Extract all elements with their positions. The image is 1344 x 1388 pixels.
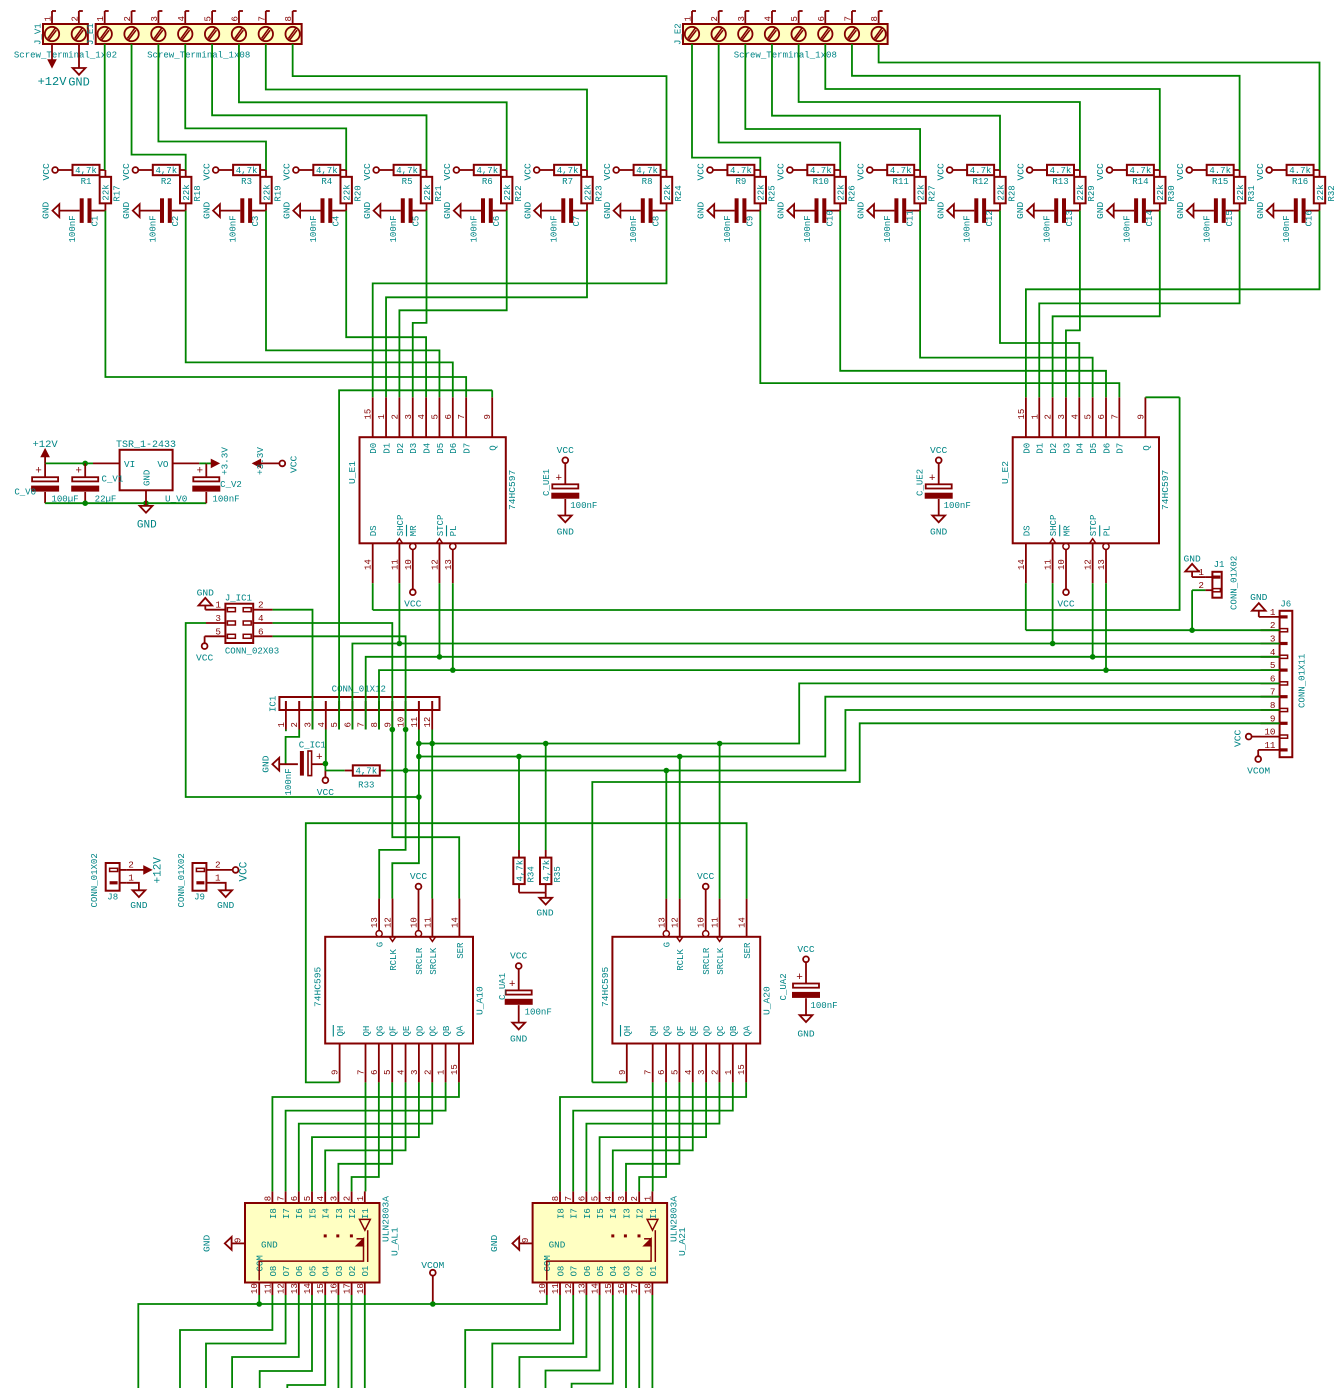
wire J_E1 pin 8 to R24 node bbox=[293, 44, 667, 170]
svg-text:O6: O6 bbox=[294, 1266, 305, 1277]
svg-text:8: 8 bbox=[550, 1196, 561, 1201]
wire +12V rail to TSR VI bbox=[45, 462, 93, 464]
junction IC1 pin 9 bbox=[390, 727, 396, 733]
svg-text:+: + bbox=[316, 752, 323, 764]
svg-text:D2: D2 bbox=[1048, 443, 1059, 454]
svg-text:14: 14 bbox=[1016, 559, 1027, 570]
U_A20 pin 15 (QA) bbox=[745, 1044, 747, 1083]
U_A21 pin 7 (I7) bbox=[572, 1191, 574, 1203]
wire U_A20 QD to U_A21 I5 bbox=[600, 1082, 707, 1191]
GND power symbol for C7 bbox=[534, 204, 541, 217]
svg-text:100nF: 100nF bbox=[388, 215, 399, 242]
svg-text:6: 6 bbox=[1096, 414, 1107, 419]
svg-text:1: 1 bbox=[1270, 607, 1276, 618]
U_A10 pin 12 (RCLK) bbox=[389, 937, 395, 942]
svg-text:13: 13 bbox=[443, 559, 454, 570]
VCC power symbol at J6 pin 10 bbox=[1252, 736, 1261, 738]
U_A20 pin 6 (QG) bbox=[665, 1044, 667, 1083]
svg-text:100nF: 100nF bbox=[1201, 215, 1212, 242]
GND power symbol for C1 bbox=[53, 204, 60, 217]
wire U_A10 QD to U_AL1 I5 bbox=[312, 1082, 419, 1191]
capacitor C_V1 (22uF) bbox=[84, 463, 86, 477]
wire channel 6 to U_E1 D2 bbox=[399, 211, 506, 398]
svg-text:22k: 22k bbox=[836, 184, 847, 200]
svg-text:4: 4 bbox=[315, 1196, 326, 1201]
svg-text:I4: I4 bbox=[608, 1208, 619, 1219]
svg-text:STCP: STCP bbox=[435, 515, 446, 537]
IC1 pin 12 bbox=[431, 710, 433, 730]
svg-text:100nF: 100nF bbox=[802, 215, 813, 242]
U_E2 pin 3 (D3) bbox=[1065, 397, 1067, 437]
U_A10 pin 4 (QE) bbox=[405, 1044, 407, 1083]
U_AL1 pin 3 (I3) bbox=[337, 1191, 339, 1203]
resistor R13 (4.7k) bbox=[1033, 169, 1048, 171]
svg-text:GND: GND bbox=[1183, 554, 1201, 565]
svg-text:U_A10: U_A10 bbox=[474, 986, 485, 1015]
svg-text:D1: D1 bbox=[381, 443, 392, 454]
connector J6 CONN_01X11 body bbox=[1280, 611, 1293, 757]
svg-text:D3: D3 bbox=[408, 443, 419, 454]
svg-text:I1: I1 bbox=[360, 1208, 371, 1219]
svg-text:2: 2 bbox=[629, 1196, 640, 1201]
svg-text:R15: R15 bbox=[1212, 176, 1228, 187]
junction IC1 pin 11 net bbox=[416, 794, 422, 800]
svg-text:I2: I2 bbox=[635, 1208, 646, 1219]
svg-text:10: 10 bbox=[537, 1283, 548, 1294]
U_A20 pin 7 (QH) bbox=[652, 1044, 654, 1083]
capacitor C7 (100nF) bbox=[541, 210, 561, 212]
svg-text:R32: R32 bbox=[1326, 185, 1337, 201]
wire U_A21 O1 to bottom edge bbox=[651, 1295, 653, 1388]
svg-text:CONN_01X11: CONN_01X11 bbox=[1296, 654, 1307, 708]
J6 pin 7 bbox=[1261, 696, 1280, 698]
svg-text:100nF: 100nF bbox=[308, 215, 319, 242]
U_AL1 pin 2 (I2) bbox=[351, 1191, 353, 1203]
wire channel 15 to U_E2 D1 bbox=[1039, 211, 1239, 398]
wire RCLK net IC1 pin 11 to U_A10 RCLK bbox=[392, 730, 419, 899]
IC1 pin 10 bbox=[405, 710, 407, 730]
U_A10 pin 5 (QF) bbox=[391, 1044, 393, 1083]
VCC power symbol for R12 bbox=[947, 167, 953, 173]
U_E2 pin 2 (D2) bbox=[1052, 397, 1054, 437]
svg-text:GND: GND bbox=[121, 201, 132, 219]
J6 pin 8 bbox=[1261, 709, 1280, 711]
svg-text:VCOM: VCOM bbox=[421, 1260, 444, 1271]
svg-text:100nF: 100nF bbox=[962, 215, 973, 242]
svg-text:11: 11 bbox=[409, 717, 420, 728]
svg-text:R27: R27 bbox=[926, 185, 937, 201]
svg-text:C15: C15 bbox=[1224, 210, 1235, 226]
svg-text:5: 5 bbox=[1083, 414, 1094, 419]
U_A10 pin 15 (QA) bbox=[458, 1044, 460, 1083]
svg-text:PL: PL bbox=[1101, 525, 1112, 536]
U_AL1 pin 1 (I1) bbox=[364, 1191, 366, 1203]
svg-text:16: 16 bbox=[616, 1283, 627, 1294]
svg-text:O4: O4 bbox=[321, 1266, 332, 1277]
U_AL1 pin 12 (O7) bbox=[285, 1283, 287, 1296]
svg-text:I4: I4 bbox=[321, 1208, 332, 1219]
svg-text:GND: GND bbox=[510, 1034, 528, 1045]
svg-text:RCLK: RCLK bbox=[675, 949, 686, 971]
svg-text:R23: R23 bbox=[593, 185, 604, 201]
capacitor C2 (100nF) bbox=[140, 210, 160, 212]
J6 pin 3 bbox=[1261, 643, 1280, 645]
svg-text:17: 17 bbox=[342, 1283, 353, 1294]
svg-text:R19: R19 bbox=[272, 185, 283, 201]
GND power symbol for C4 bbox=[293, 204, 300, 217]
resistor R5 (4,7k) bbox=[379, 169, 394, 171]
resistor R6 (4,7k) bbox=[459, 169, 474, 171]
svg-text:C6: C6 bbox=[491, 216, 502, 227]
wire U_AL1 O7 to bottom edge bbox=[206, 1295, 286, 1388]
svg-text:O5: O5 bbox=[595, 1266, 606, 1277]
resistor R34 (4,7k) bbox=[518, 757, 520, 851]
U_A20 pin 10 (SRCLR) to VCC bbox=[703, 931, 709, 937]
capacitor C4 (100nF) bbox=[300, 210, 320, 212]
svg-text:C_UA1: C_UA1 bbox=[497, 973, 508, 1000]
svg-text:O1: O1 bbox=[648, 1266, 659, 1277]
U_A21 pin 16 (O3) bbox=[625, 1283, 627, 1296]
svg-text:15: 15 bbox=[315, 1283, 326, 1294]
svg-text:QE: QE bbox=[688, 1026, 699, 1037]
resistor R24 (22k) bbox=[666, 170, 668, 177]
IC1 pin 3 bbox=[312, 710, 314, 730]
U_A21 pin 10 (COM) bbox=[546, 1283, 548, 1296]
svg-text:Screw_Terminal_1x02: Screw_Terminal_1x02 bbox=[14, 50, 117, 61]
svg-text:GND: GND bbox=[202, 1234, 213, 1252]
svg-text:74HC595: 74HC595 bbox=[313, 966, 324, 1007]
resistor R17 (22k) bbox=[104, 170, 106, 177]
wire U_A10 QE to U_AL1 I4 bbox=[325, 1082, 405, 1191]
IC1 pin 8 bbox=[378, 710, 380, 730]
svg-text:QB: QB bbox=[441, 1025, 452, 1036]
svg-text:J_E1: J_E1 bbox=[85, 23, 96, 45]
junction J1 pin 2 bbox=[1189, 627, 1195, 633]
VCC power symbol for R2 bbox=[133, 167, 139, 173]
VCC power symbol at C_UA2 bbox=[803, 956, 809, 962]
capacitor C8 (100nF) bbox=[620, 210, 640, 212]
wire RCLK net to U_A20 RCLK bbox=[679, 757, 681, 899]
svg-text:13: 13 bbox=[369, 917, 380, 928]
svg-text:GND: GND bbox=[130, 900, 148, 911]
U_A21 pin 4 (I4) bbox=[612, 1191, 614, 1203]
svg-text:VCC: VCC bbox=[1255, 163, 1266, 181]
svg-text:I2: I2 bbox=[347, 1208, 358, 1219]
U_AL1 pin 14 (O5) bbox=[311, 1283, 313, 1296]
screw terminal J_E2 (Screw_Terminal_1x08) bbox=[683, 24, 888, 44]
svg-text:C_UE2: C_UE2 bbox=[915, 469, 926, 496]
svg-text:4.7k: 4.7k bbox=[970, 165, 992, 176]
svg-text:14: 14 bbox=[449, 917, 460, 928]
svg-text:12: 12 bbox=[383, 917, 394, 928]
svg-text:J1: J1 bbox=[1214, 559, 1225, 570]
svg-text:I7: I7 bbox=[281, 1208, 292, 1219]
svg-text:VO: VO bbox=[157, 459, 169, 470]
svg-text:18: 18 bbox=[642, 1283, 653, 1294]
U_E1 pin 9 (Q) bbox=[491, 397, 493, 437]
svg-text:RCLK: RCLK bbox=[388, 949, 399, 971]
svg-text:9: 9 bbox=[1135, 414, 1146, 419]
U_E2 pin 9 (Q) bbox=[1144, 397, 1146, 437]
wire U_A10 QH_ to U_A20 SER bbox=[306, 823, 747, 1082]
svg-text:GND: GND bbox=[930, 527, 948, 538]
wire SRCLK net IC1 pin 12 to U_A10 SRCLK bbox=[431, 730, 433, 899]
svg-text:6: 6 bbox=[656, 1070, 667, 1075]
svg-text:VCC: VCC bbox=[317, 787, 335, 798]
wire IC1 pin 1 GND elbow bbox=[285, 730, 287, 732]
svg-text:U_E2: U_E2 bbox=[1000, 461, 1011, 484]
U_A20 pin 12 (RCLK) bbox=[677, 937, 683, 942]
capacitor C_V2 (100nF) bbox=[205, 463, 207, 477]
svg-text:G: G bbox=[662, 942, 673, 947]
svg-text:22k: 22k bbox=[181, 184, 192, 200]
svg-text:+3.3V: +3.3V bbox=[255, 447, 266, 475]
svg-text:7: 7 bbox=[456, 414, 467, 419]
svg-text:VCC: VCC bbox=[776, 163, 787, 181]
svg-text:100nF: 100nF bbox=[283, 768, 294, 795]
J6 pin 1 bbox=[1261, 616, 1280, 618]
svg-text:GND: GND bbox=[855, 201, 866, 219]
svg-text:2: 2 bbox=[128, 860, 134, 871]
connector J1 CONN_01X02 body bbox=[1212, 572, 1221, 598]
J1 pin 2 bbox=[1205, 589, 1212, 591]
wire J_IC1 pin 2 to IC1 pin 3 bbox=[273, 610, 313, 730]
U_A21 pin 1 (I1) bbox=[651, 1191, 653, 1203]
svg-text:1: 1 bbox=[43, 16, 54, 21]
svg-text:STCP: STCP bbox=[1088, 515, 1099, 537]
svg-text:6: 6 bbox=[816, 16, 827, 21]
svg-text:QC: QC bbox=[715, 1025, 726, 1036]
resistor R20 (22k) bbox=[345, 170, 347, 177]
wire J_E2 pin 3 to R27 node bbox=[745, 44, 920, 170]
J_IC1 pin 1 bbox=[206, 609, 225, 611]
voltage regulator U_V0 TSR_1-2433 body bbox=[120, 450, 173, 491]
svg-text:VCC: VCC bbox=[935, 163, 946, 181]
svg-text:MR: MR bbox=[408, 525, 419, 536]
U_E1 pin 5 (D5) bbox=[438, 397, 440, 437]
svg-text:100nF: 100nF bbox=[228, 215, 239, 242]
svg-text:VCC: VCC bbox=[696, 163, 707, 181]
svg-text:C_V0: C_V0 bbox=[14, 487, 36, 498]
svg-text:+: + bbox=[75, 466, 82, 478]
svg-text:1: 1 bbox=[215, 600, 221, 611]
svg-text:16: 16 bbox=[328, 1283, 339, 1294]
svg-text:O3: O3 bbox=[621, 1266, 632, 1277]
svg-text:I3: I3 bbox=[334, 1208, 345, 1219]
svg-text:14: 14 bbox=[737, 917, 748, 928]
IC1 pin 2 bbox=[298, 710, 300, 730]
svg-text:R17: R17 bbox=[112, 185, 123, 201]
svg-text:10: 10 bbox=[696, 917, 707, 928]
svg-text:VCC: VCC bbox=[1015, 163, 1026, 181]
svg-text:VCC: VCC bbox=[522, 163, 533, 181]
svg-text:13: 13 bbox=[576, 1283, 587, 1294]
wire U_E2 Q to U_E1 DS bbox=[1145, 396, 1179, 398]
svg-text:13: 13 bbox=[656, 917, 667, 928]
J6 pin 2 bbox=[1261, 629, 1280, 631]
svg-text:D7: D7 bbox=[462, 443, 473, 454]
svg-text:4: 4 bbox=[762, 16, 773, 21]
svg-text:VCC: VCC bbox=[856, 163, 867, 181]
svg-text:SHCP: SHCP bbox=[1048, 515, 1059, 537]
svg-text:1: 1 bbox=[642, 1196, 653, 1201]
svg-text:C8: C8 bbox=[651, 216, 662, 227]
wire U_AL1 O4 to bottom edge bbox=[287, 1295, 325, 1388]
svg-text:22k: 22k bbox=[662, 184, 673, 200]
resistor R3 (4,7k) bbox=[219, 169, 234, 171]
svg-text:4,7k: 4,7k bbox=[541, 860, 552, 882]
svg-text:D4: D4 bbox=[422, 443, 433, 454]
svg-text:1: 1 bbox=[683, 16, 694, 21]
svg-text:5: 5 bbox=[215, 626, 221, 637]
svg-text:+12V: +12V bbox=[32, 439, 58, 451]
wire J_E2 pin 7 to R31 node bbox=[852, 44, 1240, 170]
U_A20 pin 5 (QF) bbox=[678, 1044, 680, 1083]
capacitor C3 (100nF) bbox=[220, 210, 240, 212]
VCC power symbol for R10 bbox=[787, 167, 793, 173]
resistor R22 (22k) bbox=[506, 170, 508, 177]
svg-text:2: 2 bbox=[342, 1196, 353, 1201]
wire U_A21 O7 to bottom edge bbox=[492, 1295, 573, 1388]
svg-text:I8: I8 bbox=[555, 1208, 566, 1219]
svg-text:15: 15 bbox=[449, 1064, 460, 1075]
wire J_E2 pin 8 to R32 node bbox=[879, 44, 1320, 170]
svg-text:22k: 22k bbox=[1315, 184, 1326, 200]
svg-text:4,7k: 4,7k bbox=[557, 165, 579, 176]
U_AL1 internal dots bbox=[324, 1234, 327, 1237]
shift register U_A10 74HC595 body bbox=[325, 937, 473, 1044]
svg-text:SRCLR: SRCLR bbox=[414, 947, 425, 975]
svg-text:2: 2 bbox=[122, 16, 133, 21]
svg-text:U_A21: U_A21 bbox=[677, 1227, 688, 1256]
svg-text:GND: GND bbox=[260, 755, 271, 773]
svg-text:Screw_Terminal_1x08: Screw_Terminal_1x08 bbox=[734, 50, 837, 61]
svg-text:2: 2 bbox=[258, 600, 264, 611]
wire channel 8 to U_E1 D0 bbox=[373, 211, 667, 398]
svg-text:D4: D4 bbox=[1075, 443, 1086, 454]
U_AL1 pin 16 (O3) bbox=[337, 1283, 339, 1296]
svg-text:VI: VI bbox=[124, 459, 135, 470]
wire U_AL1 O3 to bottom edge bbox=[337, 1295, 339, 1388]
svg-text:R31: R31 bbox=[1246, 185, 1257, 201]
U_E2 pin 4 (D4) bbox=[1078, 397, 1080, 437]
svg-text:GND: GND bbox=[1175, 201, 1186, 219]
svg-text:Q: Q bbox=[488, 445, 499, 451]
svg-text:9: 9 bbox=[482, 414, 493, 419]
svg-text:100nF: 100nF bbox=[1122, 215, 1133, 242]
wire U_E1 Q to IC1 pin 5 bbox=[491, 390, 493, 397]
U_A21 pin 2 (I2) bbox=[638, 1191, 640, 1203]
svg-text:GND: GND bbox=[137, 520, 157, 532]
svg-text:IC1: IC1 bbox=[267, 696, 278, 712]
svg-text:VCC: VCC bbox=[410, 871, 428, 882]
wire U_A21 O6 to bottom edge bbox=[519, 1295, 586, 1388]
svg-text:GND: GND bbox=[557, 527, 575, 538]
resistor R26 (22k) bbox=[839, 170, 841, 177]
svg-text:QC: QC bbox=[428, 1025, 439, 1036]
svg-text:D0: D0 bbox=[368, 443, 379, 454]
svg-text:J_E2: J_E2 bbox=[673, 23, 684, 45]
svg-text:100nF: 100nF bbox=[810, 1000, 837, 1011]
U_A21 pin 13 (O6) bbox=[585, 1283, 587, 1296]
svg-text:100nF: 100nF bbox=[1281, 215, 1292, 242]
svg-text:GND: GND bbox=[536, 908, 554, 919]
svg-text:QF: QF bbox=[675, 1026, 686, 1037]
U_E1 pin 4 (D4) bbox=[425, 397, 427, 437]
svg-text:C12: C12 bbox=[984, 210, 995, 226]
wire channel 5 to U_E1 D3 bbox=[413, 211, 427, 398]
GND power symbol at R34 R35 bbox=[519, 892, 546, 894]
svg-text:15: 15 bbox=[603, 1283, 614, 1294]
wire U_A10 QH to U_AL1 I1 bbox=[365, 1082, 367, 1191]
svg-text:GND: GND bbox=[142, 470, 153, 486]
capacitor C9 (100nF) bbox=[714, 210, 734, 212]
svg-text:VCC: VCC bbox=[797, 944, 815, 955]
U_AL1 pin 18 (O1) bbox=[364, 1283, 366, 1296]
svg-text:CONN_01X02: CONN_01X02 bbox=[89, 853, 100, 907]
darlington array U_A21 ULN2803A body bbox=[533, 1203, 668, 1283]
VCC power symbol for R16 bbox=[1266, 167, 1272, 173]
svg-text:9: 9 bbox=[233, 1238, 244, 1243]
svg-text:22k: 22k bbox=[422, 184, 433, 200]
U_AL1 pin 7 (I7) bbox=[285, 1191, 287, 1203]
svg-text:C1: C1 bbox=[90, 216, 101, 227]
svg-text:DS: DS bbox=[1021, 525, 1032, 536]
J6 pin 5 bbox=[1261, 669, 1280, 671]
wire channel 11 to U_E2 D5 bbox=[920, 211, 1093, 398]
svg-text:I1: I1 bbox=[648, 1208, 659, 1219]
svg-text:I6: I6 bbox=[294, 1208, 305, 1219]
svg-text:4,7k: 4,7k bbox=[316, 165, 338, 176]
svg-text:Q: Q bbox=[1141, 445, 1152, 451]
resistor R7 (4,7k) bbox=[540, 169, 555, 171]
svg-text:QG: QG bbox=[374, 1026, 385, 1037]
U_A21 internal darlington symbol bbox=[647, 1219, 658, 1230]
U_A10 pin 13 (G) bbox=[376, 931, 382, 937]
capacitor C1 (100nF) bbox=[59, 210, 79, 212]
svg-text:4,7k: 4,7k bbox=[236, 165, 258, 176]
J1 pin 1 to GND bbox=[1205, 576, 1212, 578]
svg-text:GND: GND bbox=[489, 1234, 500, 1252]
svg-text:100nF: 100nF bbox=[212, 494, 239, 505]
svg-text:QD: QD bbox=[414, 1026, 425, 1037]
J_IC1 pin 6 bbox=[253, 635, 272, 637]
U_E1 pin 1 (D1) bbox=[385, 397, 387, 437]
GND power symbol at J_IC1 pin 1 bbox=[204, 609, 207, 611]
U_A10 pin 7 (QH) bbox=[365, 1044, 367, 1083]
svg-text:U_A20: U_A20 bbox=[762, 986, 773, 1015]
svg-text:D6: D6 bbox=[1101, 443, 1112, 454]
GND power symbol for C8 bbox=[614, 204, 621, 217]
VCOM rail wire bbox=[138, 1295, 547, 1388]
svg-text:3: 3 bbox=[736, 16, 747, 21]
svg-text:+: + bbox=[509, 979, 516, 991]
wire U_AL1 O6 to bottom edge bbox=[232, 1295, 299, 1388]
VCC power symbol for R4 bbox=[293, 167, 299, 173]
svg-text:R29: R29 bbox=[1086, 185, 1097, 201]
capacitor C6 (100nF) bbox=[461, 210, 481, 212]
svg-text:C_UA2: C_UA2 bbox=[778, 973, 789, 1000]
capacitor C_IC1 (100nF) bbox=[279, 763, 298, 765]
svg-text:VCOM: VCOM bbox=[1247, 766, 1270, 777]
U_A10 pin 10 (SRCLR) to VCC bbox=[415, 931, 421, 937]
svg-text:1: 1 bbox=[1029, 414, 1040, 419]
VCC power symbol for R6 bbox=[454, 167, 460, 173]
svg-text:100nF: 100nF bbox=[147, 215, 158, 242]
J8 pin 2 to +12V bbox=[120, 869, 127, 871]
U_A10 pin 14 (SER) bbox=[458, 899, 460, 937]
connector IC1 CONN_01X12 body bbox=[279, 697, 439, 710]
